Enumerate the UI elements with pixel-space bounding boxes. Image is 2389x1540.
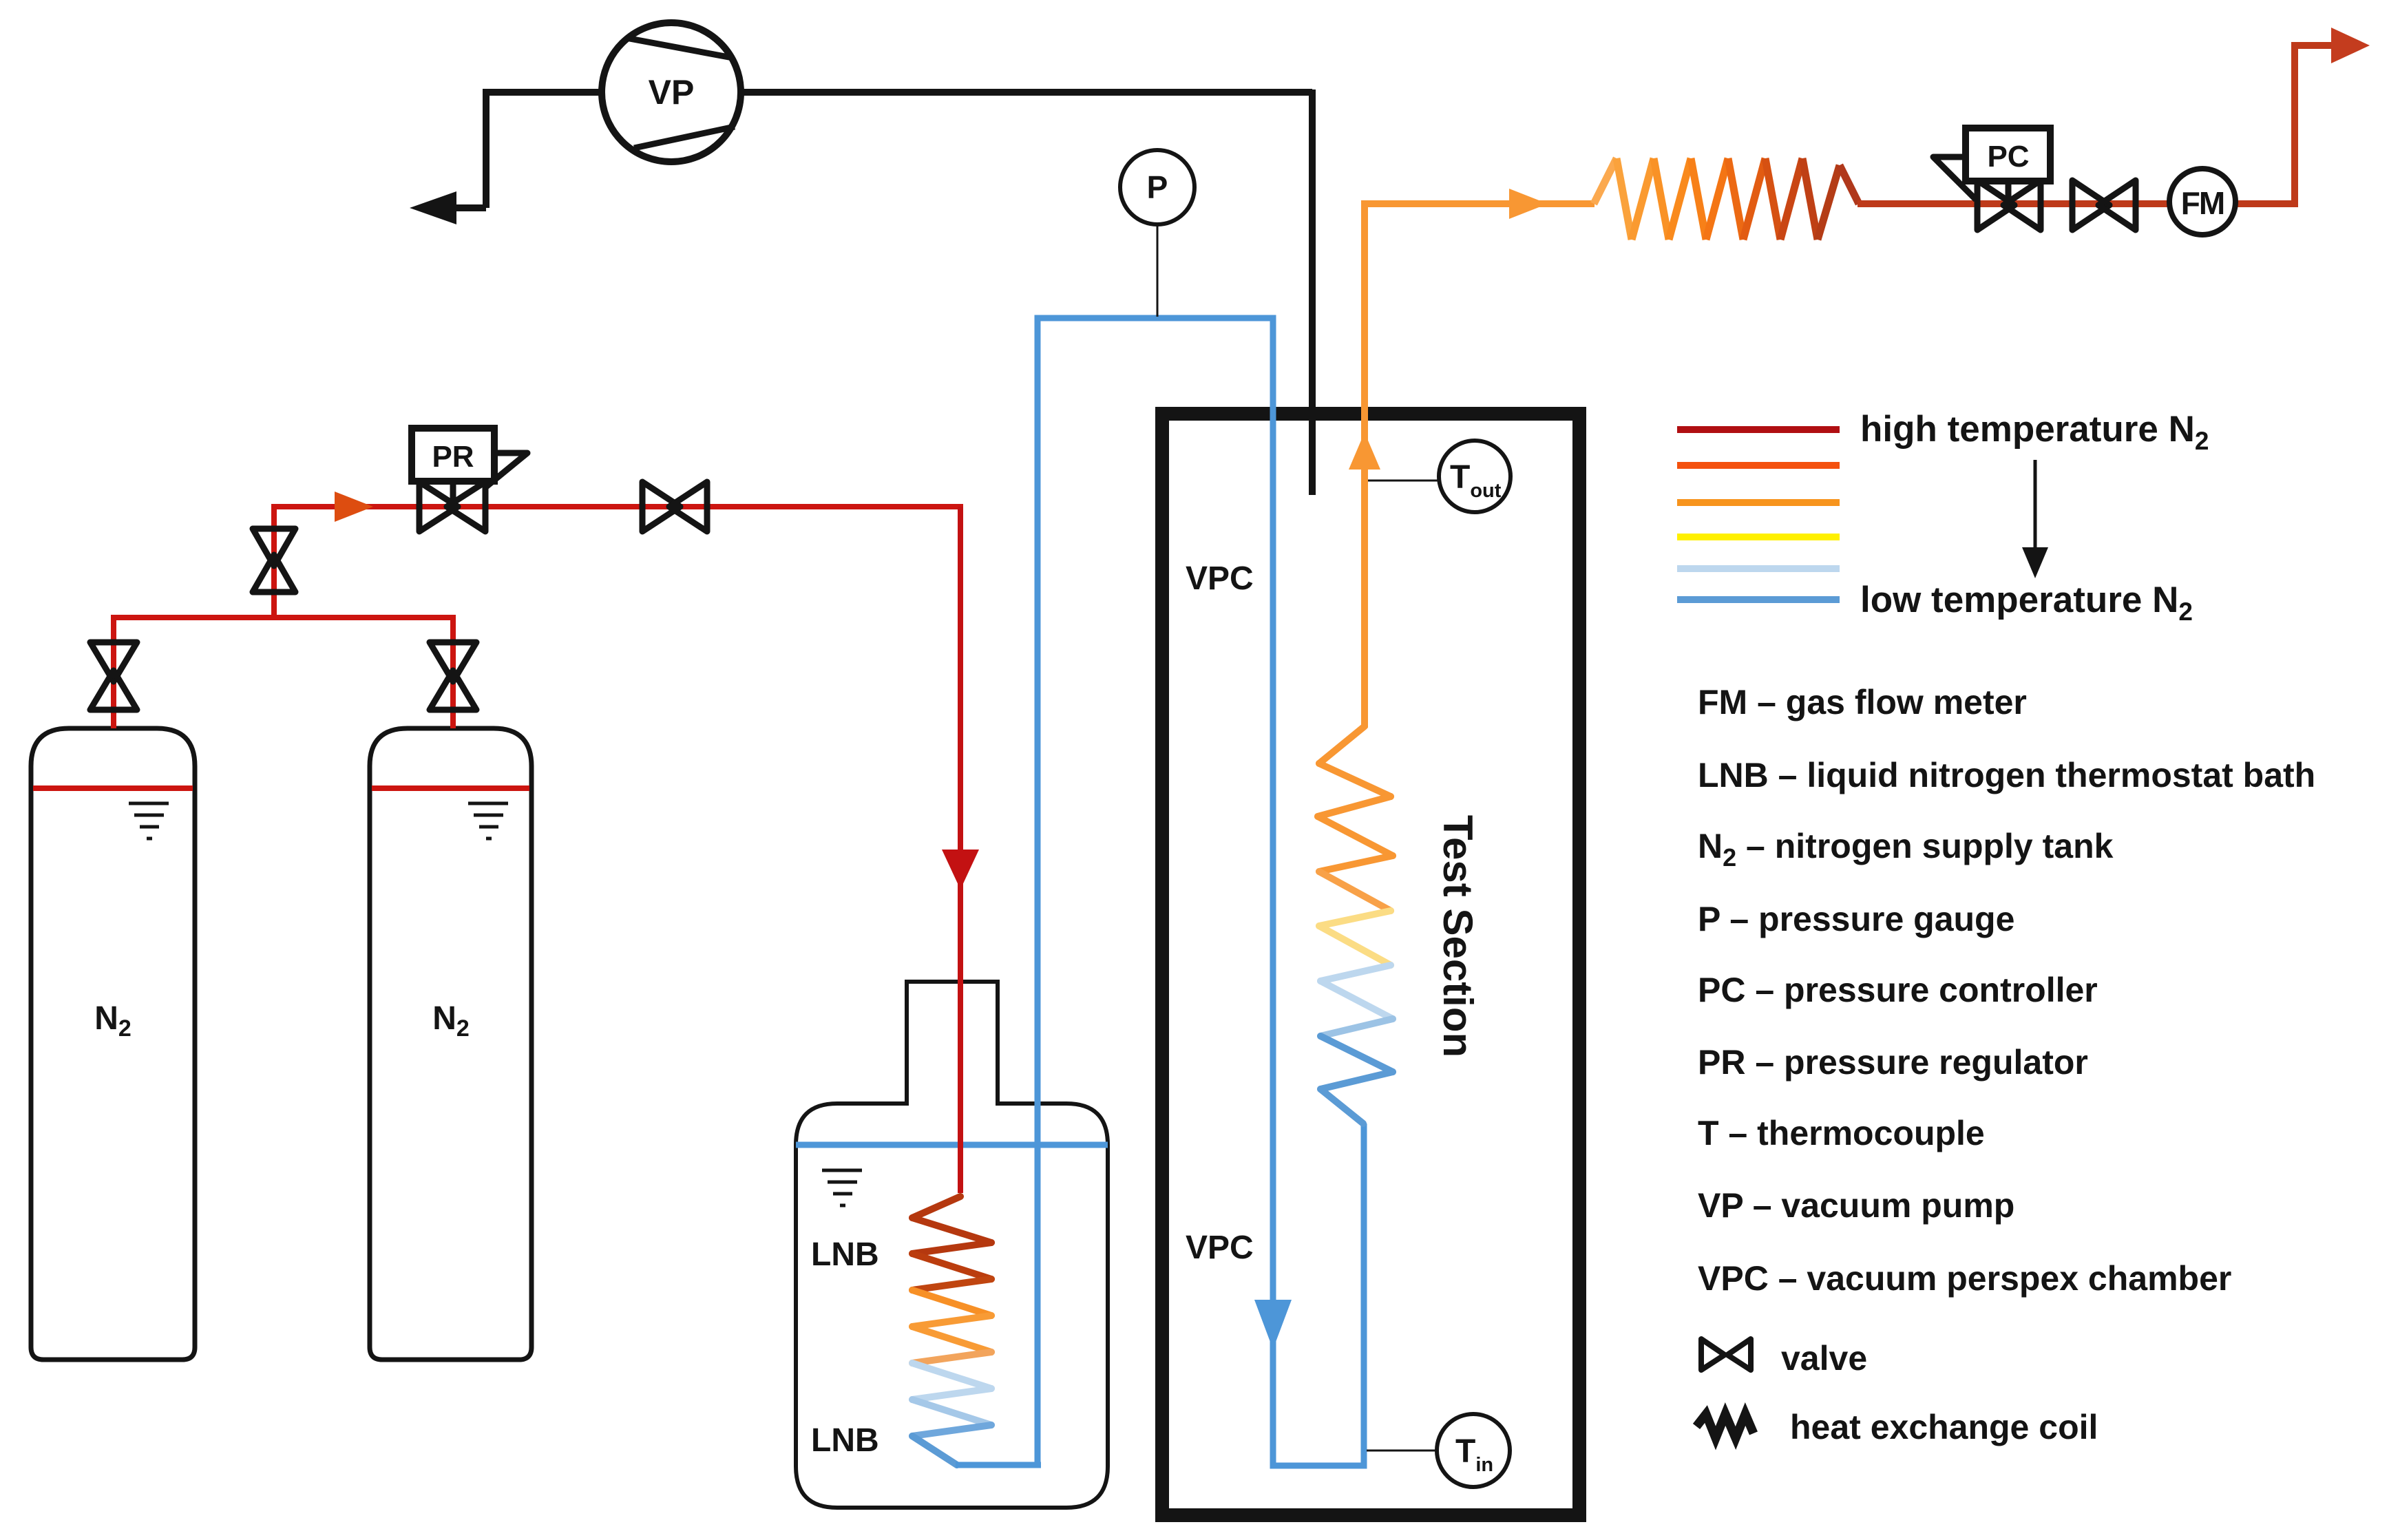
svg-text:Test Section: Test Section xyxy=(1435,815,1481,1057)
svg-text:VP: VP xyxy=(649,73,695,112)
svg-text:N2 – nitrogen supply tank: N2 – nitrogen supply tank xyxy=(1698,827,2114,872)
svg-text:low temperature N2: low temperature N2 xyxy=(1860,580,2193,626)
svg-text:PR: PR xyxy=(432,440,474,474)
svg-text:heat exchange coil: heat exchange coil xyxy=(1790,1408,2098,1446)
svg-text:VPC: VPC xyxy=(1186,1230,1254,1266)
svg-text:FM: FM xyxy=(2181,185,2224,221)
svg-text:PR – pressure regulator: PR – pressure regulator xyxy=(1698,1043,2088,1082)
svg-text:P – pressure gauge: P – pressure gauge xyxy=(1698,900,2014,938)
svg-text:high temperature N2: high temperature N2 xyxy=(1860,409,2209,455)
svg-text:valve: valve xyxy=(1781,1339,1867,1378)
svg-text:LNB – liquid nitrogen thermost: LNB – liquid nitrogen thermostat bath xyxy=(1698,756,2315,794)
svg-text:VPC – vacuum perspex chamber: VPC – vacuum perspex chamber xyxy=(1698,1259,2231,1298)
svg-text:LNB: LNB xyxy=(811,1236,879,1273)
svg-text:T – thermocouple: T – thermocouple xyxy=(1698,1114,1985,1152)
svg-text:PC: PC xyxy=(1987,140,2029,173)
svg-text:LNB: LNB xyxy=(811,1422,879,1459)
svg-text:VP – vacuum pump: VP – vacuum pump xyxy=(1698,1186,2014,1225)
svg-text:VPC: VPC xyxy=(1186,560,1254,597)
svg-text:FM – gas flow meter: FM – gas flow meter xyxy=(1698,683,2027,721)
svg-text:P: P xyxy=(1147,169,1168,205)
svg-text:PC – pressure controller: PC – pressure controller xyxy=(1698,971,2098,1009)
